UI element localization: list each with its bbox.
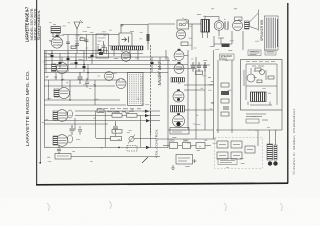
electrolytic C20 (267, 144, 278, 166)
bottom right text box (218, 159, 237, 165)
speaker cone (250, 10, 259, 31)
svg-text:©John F. Rider, Publisher: ©John F. Rider, Publisher (292, 108, 296, 174)
svg-text:2000: 2000 (169, 140, 175, 143)
tiny mark lower-left (40, 162, 42, 164)
wire top power (148, 24, 201, 44)
wire left rail2 (44, 50, 46, 148)
wires mid-left y80-105 (44, 80, 126, 105)
antenna (74, 20, 83, 34)
grid cap top (177, 20, 189, 29)
tube V11 output (173, 113, 185, 127)
rectifier V13 80 (214, 21, 224, 36)
tube legend table (265, 16, 279, 50)
svg-text:5000: 5000 (183, 140, 189, 143)
tone box (170, 128, 189, 135)
tube V4 det left (54, 88, 70, 99)
svg-text:Model M-7: Model M-7 (157, 61, 162, 86)
frame bottom border (36, 183, 288, 185)
tube V3 IF amp left (57, 63, 68, 74)
IF transformer T2 (171, 78, 185, 83)
wires right top vertical (192, 44, 243, 50)
speaker plug text box (220, 54, 235, 61)
tube cluster left V7 (53, 135, 73, 147)
tube V1 6A7 (51, 33, 62, 48)
tube V8 (174, 49, 188, 61)
tube V14 output2 (173, 115, 185, 127)
tube V5a det2 (105, 72, 114, 81)
page curl mark 2 (224, 203, 226, 211)
potentiometer row y138 (96, 135, 156, 144)
bottom middle resistor row (163, 140, 211, 149)
vertical cap pair mid (102, 41, 106, 53)
output transformer on speaker (245, 21, 250, 29)
band small caps (51, 49, 154, 68)
page curl mark 1 (109, 201, 111, 209)
wire bottom-left 1 (45, 145, 168, 154)
page curl mark 3 (280, 203, 282, 211)
tube V5 AF (116, 79, 126, 89)
wires speaker area (214, 31, 243, 47)
dial lamp bar (ganged capacitor) (111, 46, 143, 60)
coupling caps mid (70, 125, 83, 135)
tube V12 1st AF (176, 30, 185, 39)
bottom right component boxes (217, 141, 255, 159)
ground bottom middle (171, 165, 175, 170)
tube V2 osc (121, 52, 131, 62)
text boxes top right (248, 50, 276, 56)
frame right border (287, 3, 289, 183)
switch diagonal (142, 157, 148, 163)
svg-text:250000: 250000 (112, 111, 121, 114)
wire left rail (40, 26, 42, 163)
power transformer T4 (201, 20, 210, 39)
svg-text:LAFAYETTE RADIO MFG. CO.: LAFAYETTE RADIO MFG. CO. (25, 71, 30, 147)
right bottom wires (216, 110, 282, 146)
cap bank right of tubes (190, 62, 210, 75)
voltage table box (128, 72, 143, 105)
frame left border (36, 0, 38, 185)
resistor row y112 (75, 109, 160, 117)
tube V10 (173, 89, 184, 102)
tube V9 (174, 62, 184, 74)
antenna coil L1 (51, 27, 61, 38)
speaker field coil (233, 17, 243, 31)
IF transformer T3 (171, 106, 185, 113)
dashed boundary bottom right (215, 138, 263, 169)
filter caps (224, 17, 228, 30)
right-center horiz wires (156, 85, 216, 139)
shield divider line (150, 45, 152, 135)
svg-text:SPEAKER 805: SPEAKER 805 (260, 20, 264, 41)
chassis sub-circuit box (241, 60, 283, 111)
svg-text:+: + (224, 17, 226, 21)
caps at 80,75 (78, 72, 90, 88)
mid cap stack (112, 121, 122, 133)
page curl mark 0 (47, 203, 49, 211)
dense band bus wires (44, 51, 196, 73)
dashed connector box (127, 146, 137, 152)
coil left of V3 (52, 64, 57, 72)
tuning capacitor box M (119, 24, 132, 47)
resistor under power (181, 38, 230, 47)
left band verticals and dots (46, 51, 88, 101)
band vertical connectors (52, 50, 160, 72)
text under chassis box (246, 114, 268, 123)
wire above power transformer (205, 17, 219, 21)
wire horiz y34 (63, 34, 120, 36)
tiny annotation specks (42, 9, 277, 168)
right column components (218, 60, 232, 133)
output transformer box (176, 155, 197, 165)
wires left lower (44, 111, 160, 149)
ballast box (55, 154, 160, 160)
right-center rails (166, 50, 214, 148)
tube cluster left V6 (53, 110, 73, 122)
svg-text:VOL.CONTROL: VOL.CONTROL (154, 129, 158, 158)
vertical connectors topleft (68, 34, 93, 60)
text band under table (97, 109, 141, 112)
RF coil box left (96, 34, 109, 58)
resistor on wire right of M (147, 34, 150, 50)
wire top loop from M (121, 25, 148, 45)
small cap row topleft (66, 38, 89, 49)
